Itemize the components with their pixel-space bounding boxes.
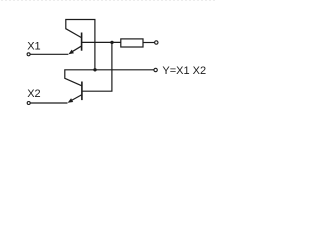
svg-text:Y=X1 X2: Y=X1 X2 [162, 65, 206, 77]
svg-text:X2: X2 [27, 88, 40, 100]
svg-text:X1: X1 [27, 41, 40, 53]
